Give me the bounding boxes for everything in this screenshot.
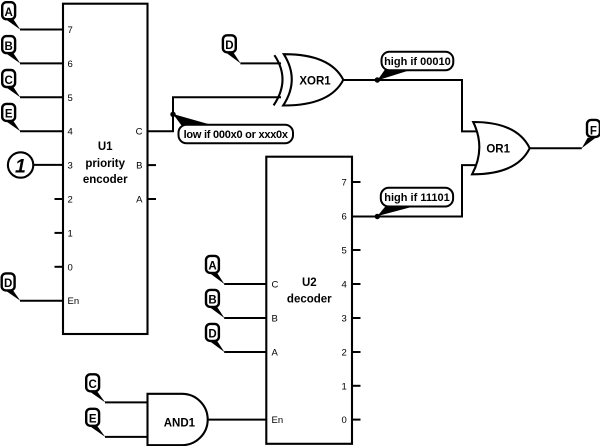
svg-text:5: 5: [342, 246, 347, 257]
svg-text:7: 7: [342, 178, 347, 189]
U1 pin stub 2: [55, 198, 64, 200]
svg-text:3: 3: [342, 314, 347, 325]
input flag E (U1 pin4): [2, 104, 20, 131]
svg-text:4: 4: [342, 280, 347, 291]
U2 pin stub 2: [352, 351, 361, 353]
svg-text:0: 0: [68, 262, 73, 273]
input flag D (U1 En): [2, 273, 21, 300]
wire A to U2 pin C: [224, 283, 266, 285]
input flag B (U2 B): [206, 290, 225, 318]
annotation tail for high-if-11101 label: [377, 207, 412, 216]
input flag E (AND1): [86, 409, 105, 437]
svg-text:low if 000x0 or xxx0x: low if 000x0 or xxx0x: [184, 129, 289, 141]
annotation label high if 00010: [382, 52, 454, 71]
xor gate XOR1: [274, 54, 344, 105]
svg-text:7: 7: [68, 25, 73, 36]
svg-text:5: 5: [68, 93, 73, 104]
wire constant 1 to U1 pin 3: [32, 164, 63, 166]
and gate AND1: [148, 394, 208, 445]
input flag A (U1 pin7): [2, 2, 20, 29]
wire E to U1 pin 4: [20, 130, 63, 132]
svg-text:high if 00010: high if 00010: [384, 56, 451, 68]
or gate OR1: [472, 122, 530, 174]
svg-text:B: B: [272, 314, 278, 325]
wire D to U1 En: [20, 300, 63, 302]
svg-text:3: 3: [68, 161, 73, 172]
svg-text:2: 2: [342, 348, 347, 359]
wire OR1 output to F: [530, 147, 582, 149]
svg-text:E: E: [5, 109, 13, 121]
svg-text:B: B: [208, 295, 216, 307]
U2 pin stub 0: [352, 419, 361, 421]
wire B to U1 pin 6: [20, 62, 63, 64]
wire E to AND1 input: [105, 436, 148, 438]
svg-text:6: 6: [342, 212, 347, 223]
svg-text:A: A: [272, 348, 279, 359]
U2 pin stub 3: [352, 317, 361, 319]
svg-text:OR1: OR1: [486, 144, 510, 156]
svg-text:A: A: [136, 195, 143, 206]
constant 1 source: [8, 152, 33, 177]
svg-text:1: 1: [342, 381, 347, 392]
annotation label low if 000x0 or xxx0x: [179, 125, 294, 144]
wire XOR1 output to OR1 input: [343, 80, 477, 131]
svg-text:1: 1: [15, 155, 26, 177]
junction dot on U1-C vertical wire: [170, 112, 175, 117]
wire D to U2 pin A: [224, 351, 266, 353]
U1 output stub B: [148, 164, 157, 166]
wire B to U2 pin B: [224, 317, 266, 319]
svg-text:1: 1: [68, 228, 73, 239]
wire A to U1 pin 7: [20, 29, 63, 31]
svg-text:A: A: [5, 7, 13, 19]
wire AND1 output to U2 En: [208, 419, 267, 421]
svg-text:En: En: [272, 415, 284, 426]
input flag D (U2 A): [206, 324, 225, 352]
svg-text:C: C: [89, 379, 97, 391]
svg-text:decoder: decoder: [287, 293, 332, 305]
svg-text:F: F: [590, 126, 597, 138]
U2 pin stub 4: [352, 283, 361, 285]
svg-text:AND1: AND1: [164, 417, 196, 429]
svg-text:C: C: [136, 127, 143, 138]
svg-text:U2: U2: [302, 277, 317, 289]
U1 pin stub 0: [55, 266, 64, 268]
annotation tail for low-if label: [173, 114, 217, 128]
svg-text:2: 2: [68, 195, 73, 206]
svg-text:E: E: [89, 414, 97, 426]
U1 name label: [83, 141, 128, 186]
U2 pin stub 1: [352, 385, 361, 387]
annotation tail for high-if-00010 label: [377, 70, 412, 81]
svg-text:D: D: [208, 329, 216, 341]
input flag A (U2 C): [206, 256, 225, 284]
U1 pin stub 1: [55, 232, 64, 234]
wire D to XOR1 input: [240, 62, 281, 64]
input flag D (XOR1): [223, 35, 241, 63]
svg-text:B: B: [5, 41, 13, 53]
wire C to AND1 input: [105, 401, 148, 403]
svg-text:XOR1: XOR1: [299, 76, 331, 88]
encoder U1 body: [63, 4, 148, 334]
input flag B (U1 pin6): [2, 36, 20, 63]
U2 pin labels: [272, 178, 347, 427]
input flag C (U1 pin5): [2, 70, 20, 97]
svg-text:C: C: [5, 75, 13, 87]
U2 pin stub 7: [352, 181, 361, 183]
svg-text:U1: U1: [98, 141, 113, 153]
svg-text:C: C: [272, 280, 279, 291]
wire C to U1 pin 5: [20, 96, 63, 98]
svg-text:priority: priority: [85, 158, 125, 170]
U1 output stub A: [148, 198, 157, 200]
svg-text:En: En: [68, 296, 80, 307]
output flag F: [582, 120, 600, 148]
U2 name label: [287, 277, 332, 306]
junction dot on XOR1 output wire: [375, 77, 380, 82]
svg-text:0: 0: [342, 415, 347, 426]
wire U2 pin 6 to OR1 input: [352, 165, 477, 216]
svg-text:A: A: [208, 261, 216, 273]
svg-text:encoder: encoder: [83, 174, 128, 186]
svg-text:high if 11101: high if 11101: [384, 192, 449, 204]
decoder U2 body: [266, 157, 352, 444]
wire U1 C output to XOR1 input: [148, 97, 282, 131]
input flag C (AND1): [86, 374, 105, 402]
U1 pin labels: [68, 25, 144, 307]
U2 pin stub 5: [352, 249, 361, 251]
svg-text:B: B: [136, 161, 142, 172]
svg-text:6: 6: [68, 59, 73, 70]
svg-text:D: D: [4, 278, 12, 290]
svg-text:D: D: [225, 40, 233, 52]
junction dot on U2 pin 6 wire: [375, 214, 380, 219]
svg-text:4: 4: [68, 127, 73, 138]
annotation label high if 11101: [381, 188, 453, 207]
